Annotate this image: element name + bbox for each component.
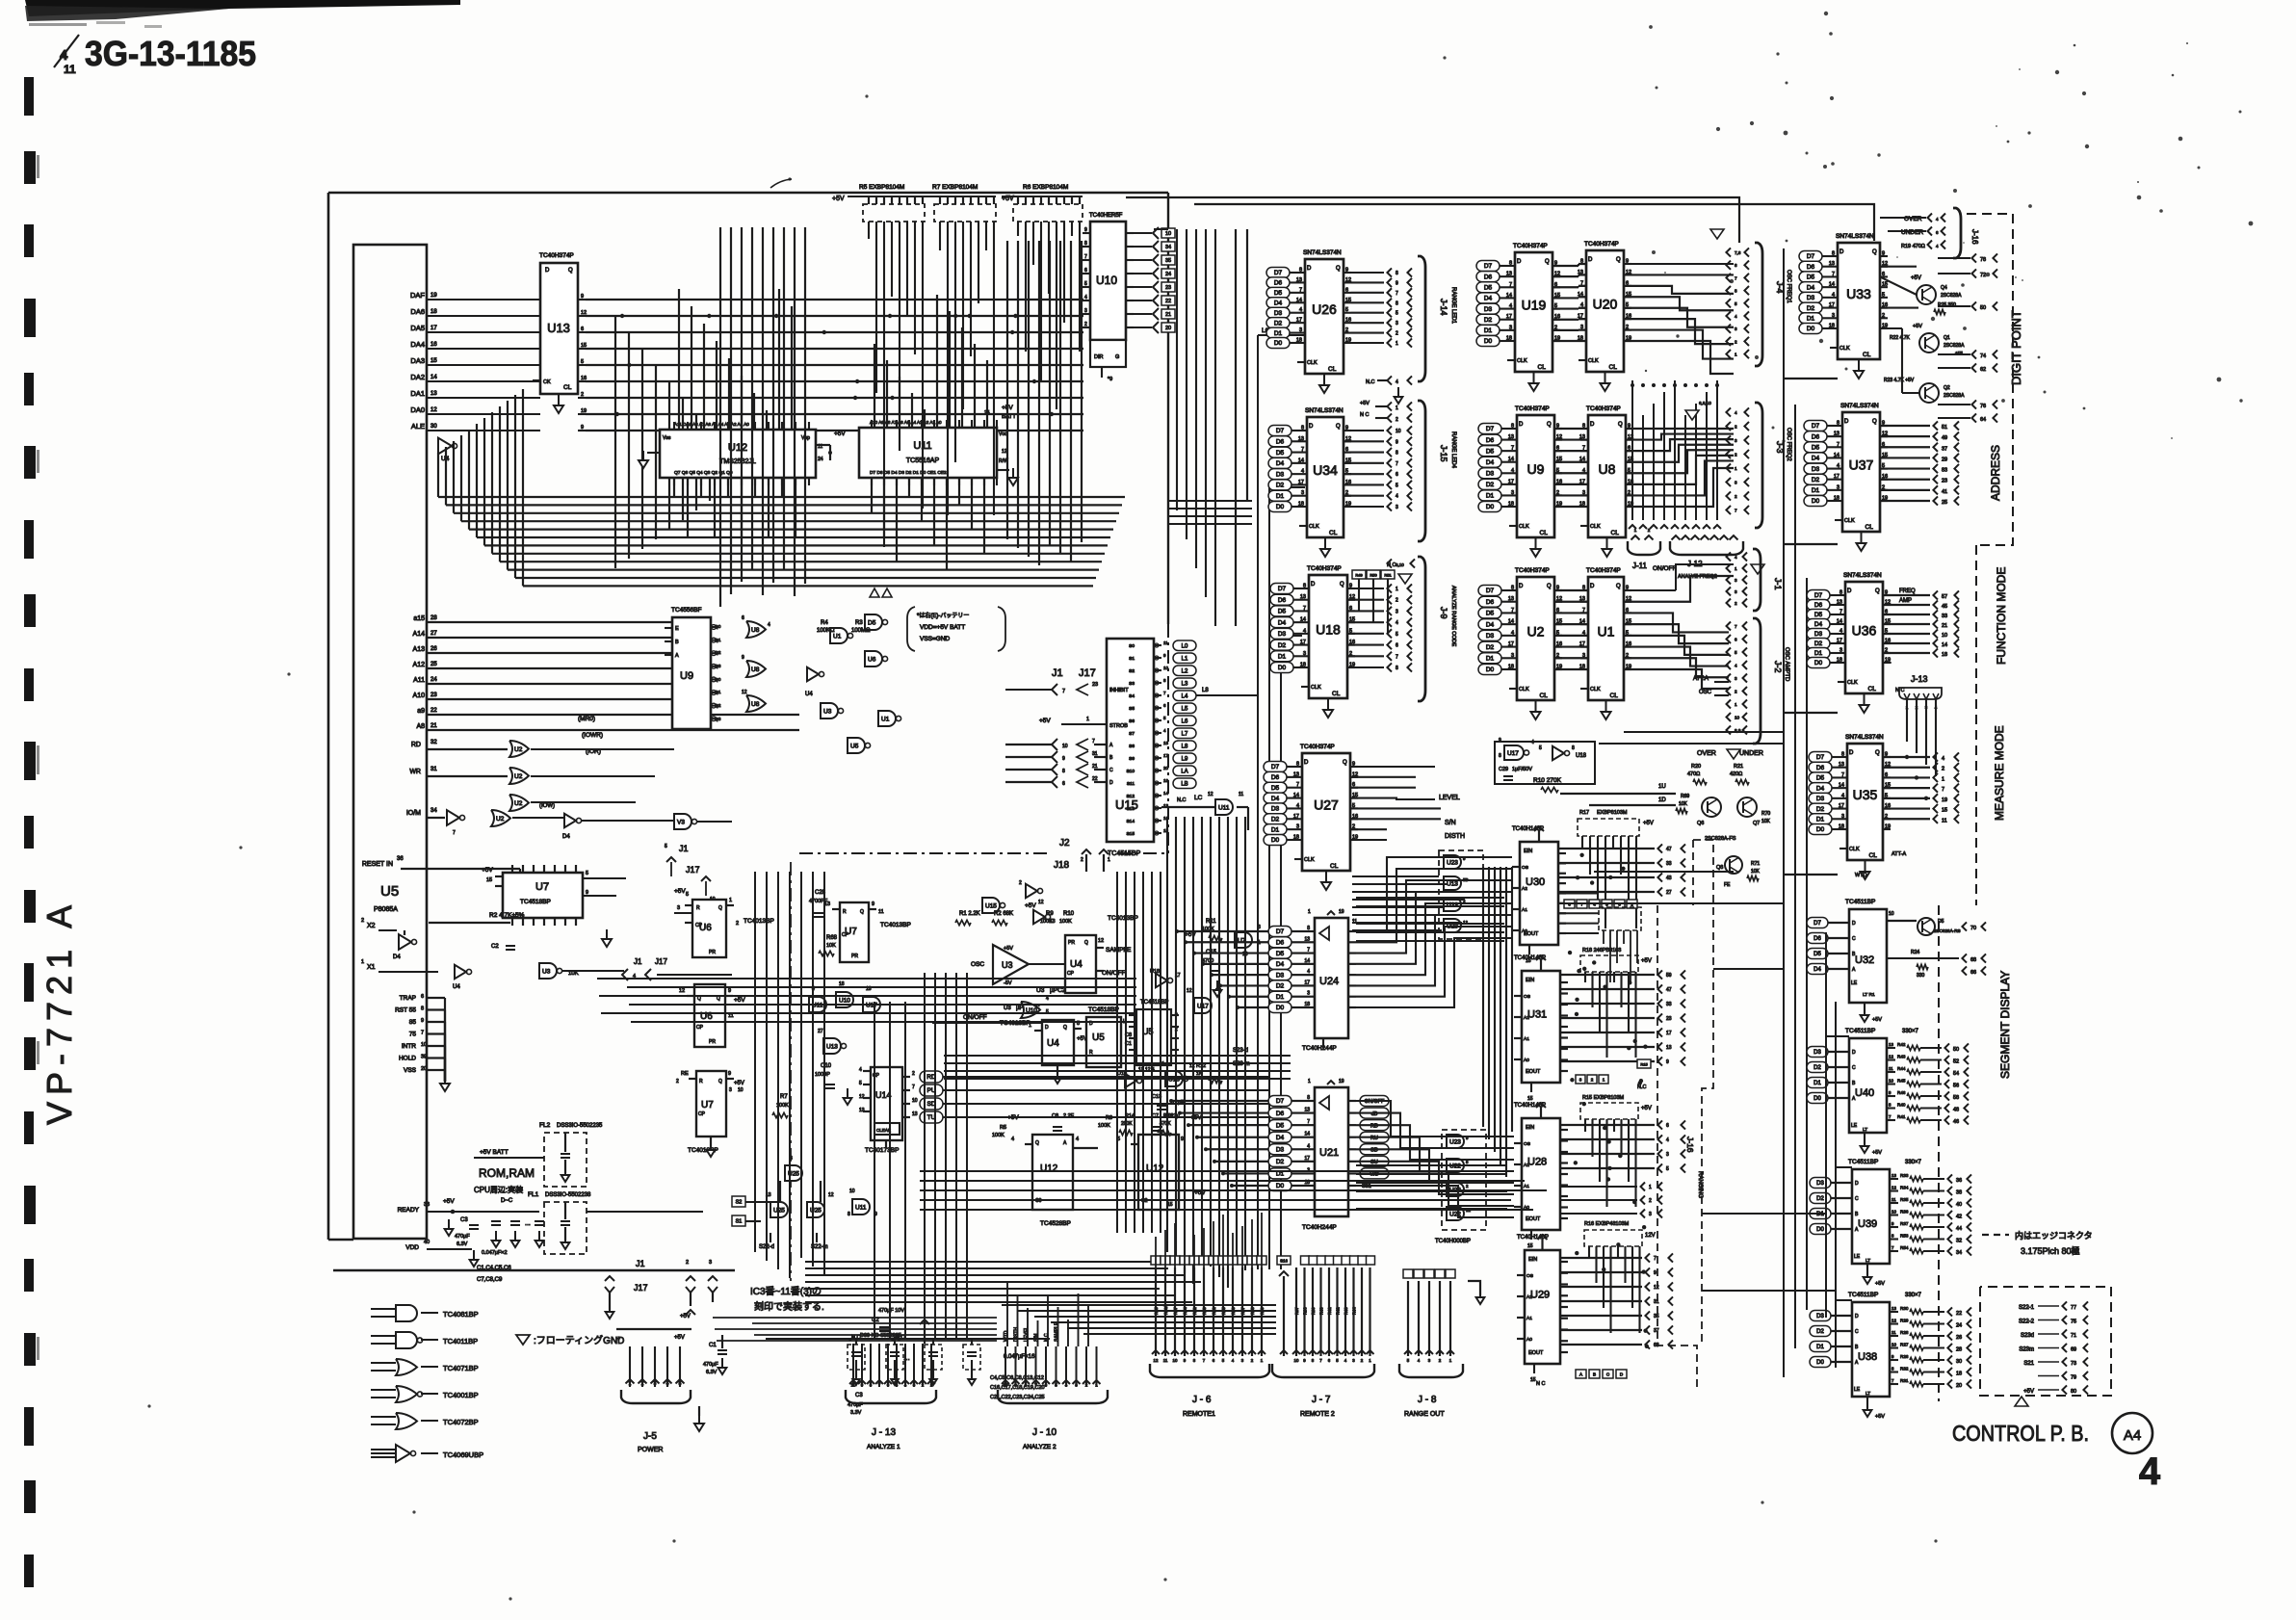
- svg-text:R9: R9: [1046, 911, 1054, 917]
- svg-text:9: 9: [1396, 439, 1398, 445]
- svg-text:TC4011BP: TC4011BP: [443, 1337, 478, 1346]
- encoder output wires with junction dots to ranging connector: [1558, 844, 1685, 1348]
- svg-text:PR: PR: [851, 954, 858, 959]
- svg-text:11: 11: [1163, 1358, 1168, 1363]
- svg-text:S22-1: S22-1: [2019, 1305, 2035, 1311]
- svg-text:A11 DA9 A8 A7 A6 A5 A4 A3 A2 A: A11 DA9 A8 A7 A6 A5 A4 A3 A2 A1 A0: [674, 422, 749, 427]
- CPU section bottom border: [333, 1269, 735, 1271]
- svg-text:D3: D3: [1486, 633, 1495, 640]
- svg-text:D2: D2: [1276, 1159, 1285, 1165]
- svg-text:4: 4: [1307, 1143, 1310, 1149]
- svg-text:2: 2: [641, 1381, 644, 1387]
- opamp U3 uPC271C: [955, 911, 1078, 994]
- svg-text:TC4511BP: TC4511BP: [1848, 1292, 1878, 1298]
- svg-text:100K: 100K: [1098, 1123, 1110, 1129]
- svg-text:D4: D4: [393, 954, 401, 960]
- svg-text:BATT: BATT: [1002, 414, 1016, 420]
- svg-text:J - 10: J - 10: [1032, 1427, 1057, 1438]
- svg-text:24: 24: [430, 677, 437, 683]
- READY and VDD rows with caps: [398, 1198, 544, 1283]
- svg-text:S23-m: S23-m: [1233, 1061, 1250, 1067]
- connectors J-11 and J-12 ANALYZ FREQ2: [1628, 528, 1764, 580]
- digit point transistors Q4 Q1 Q2: [1880, 267, 1965, 403]
- svg-text:J-16: J-16: [1970, 229, 1979, 245]
- svg-text:9: 9: [1882, 251, 1885, 257]
- svg-text:77: 77: [2071, 1305, 2076, 1311]
- svg-text:11: 11: [1942, 818, 1947, 823]
- svg-text:D1: D1: [1814, 650, 1823, 657]
- svg-text:CONTROL P. B.: CONTROL P. B.: [1952, 1421, 2089, 1446]
- svg-text:D6: D6: [1271, 774, 1280, 781]
- svg-text:1: 1: [629, 1381, 632, 1387]
- center column risers: [874, 624, 1268, 1339]
- svg-text:S5: S5: [1129, 706, 1135, 712]
- svg-text:DA0: DA0: [410, 405, 425, 414]
- svg-text:11: 11: [1892, 1197, 1896, 1202]
- svg-text:TC40H374P: TC40H374P: [1307, 565, 1342, 572]
- svg-text:3: 3: [1837, 484, 1839, 490]
- svg-text:+: +: [616, 1336, 620, 1343]
- svg-text:D5: D5: [1276, 1122, 1285, 1129]
- svg-text:2: 2: [1882, 313, 1885, 319]
- svg-text:R41: R41: [1327, 1307, 1332, 1315]
- svg-text:15: 15: [430, 358, 437, 364]
- svg-text:D7: D7: [1486, 426, 1495, 432]
- svg-text:12: 12: [1154, 1358, 1159, 1363]
- svg-text:J1: J1: [1052, 667, 1063, 679]
- svg-text:21: 21: [430, 723, 437, 729]
- svg-text:a15: a15: [413, 615, 425, 622]
- svg-text:FE: FE: [1724, 882, 1731, 888]
- svg-text:S1: S1: [1129, 656, 1135, 662]
- register U34 SN74LS374N: [1307, 417, 1344, 537]
- svg-text:D4: D4: [1276, 1135, 1285, 1141]
- svg-text:U6: U6: [868, 657, 876, 664]
- svg-text:D0: D0: [1486, 504, 1495, 510]
- svg-text:D3: D3: [1276, 972, 1285, 979]
- register U26 SN74LS374N range LED: [1305, 259, 1344, 374]
- svg-text:1: 1: [729, 898, 732, 903]
- svg-text:3: 3: [1511, 653, 1514, 659]
- svg-text:7,8: 7,8: [1735, 250, 1741, 255]
- svg-text:1: 1: [1735, 566, 1737, 571]
- svg-text:TC40H148P: TC40H148P: [1512, 826, 1544, 832]
- svg-text:8: 8: [1307, 1095, 1310, 1101]
- svg-text:DISTH: DISTH: [1014, 1327, 1020, 1342]
- svg-text:12: 12: [742, 690, 747, 695]
- svg-text:L7: L7: [1182, 731, 1188, 737]
- svg-text:L8: L8: [1202, 688, 1209, 693]
- far right CLK feeds: [1826, 932, 1852, 1368]
- svg-text:9: 9: [581, 425, 584, 431]
- svg-text:9: 9: [1062, 756, 1065, 762]
- svg-text:SN74LS374N: SN74LS374N: [1843, 572, 1882, 579]
- svg-text:10: 10: [1003, 1383, 1008, 1388]
- svg-text:32: 32: [430, 740, 437, 745]
- svg-text:20: 20: [421, 1066, 427, 1072]
- center vertical long wires: [755, 872, 1161, 1339]
- svg-text:76: 76: [1980, 404, 1986, 409]
- svg-text:40: 40: [1956, 1202, 1962, 1208]
- svg-text:EOUT: EOUT: [1526, 1216, 1541, 1222]
- svg-text:C2: C2: [491, 944, 499, 950]
- svg-text:U10: U10: [1096, 274, 1117, 287]
- svg-text:7: 7: [1299, 287, 1302, 293]
- svg-text:DA5: DA5: [410, 324, 425, 332]
- svg-text:330×7: 330×7: [1902, 1029, 1919, 1034]
- register U37 SN74LS374N address: [1842, 412, 1880, 532]
- svg-text:J-16: J-16: [1685, 1137, 1695, 1153]
- vertical drop bundle below U20 to J-11 J-12: [1629, 380, 1721, 529]
- svg-text:D2: D2: [1816, 806, 1825, 813]
- svg-text:EIN: EIN: [1526, 1125, 1534, 1131]
- svg-text:OS: OS: [1524, 1141, 1530, 1147]
- svg-text:R7 EXBP8104M: R7 EXBP8104M: [932, 184, 978, 191]
- svg-text:2SC828A: 2SC828A: [1944, 393, 1965, 399]
- svg-text::フローティングGND: :フローティングGND: [534, 1334, 624, 1346]
- svg-text:R5 EXBP8104M: R5 EXBP8104M: [859, 184, 904, 191]
- schematic outer frame left border: [327, 193, 330, 1240]
- svg-text:J - 13: J - 13: [872, 1427, 896, 1438]
- svg-text:CL: CL: [1330, 863, 1339, 870]
- svg-text:WTD: WTD: [1855, 873, 1867, 878]
- svg-text:U3: U3: [1004, 1006, 1011, 1011]
- svg-text:5: 5: [686, 892, 689, 898]
- svg-text:4: 4: [2139, 1450, 2161, 1493]
- svg-text:28: 28: [430, 615, 437, 621]
- svg-text:S3: S3: [1129, 681, 1135, 687]
- svg-text:8: 8: [1396, 666, 1398, 671]
- svg-text:4: 4: [1511, 630, 1514, 636]
- svg-text:J18: J18: [1054, 860, 1070, 871]
- svg-text:D2: D2: [1807, 305, 1815, 312]
- svg-text:Vcc: Vcc: [999, 431, 1007, 437]
- svg-text:ALE: ALE: [411, 422, 425, 431]
- flip-flop U6 TC4013BP first: [674, 888, 774, 957]
- svg-text:U4: U4: [1070, 959, 1083, 970]
- svg-text:9: 9: [1345, 268, 1348, 274]
- svg-text:Vss: Vss: [663, 435, 671, 441]
- svg-text:16: 16: [430, 342, 437, 348]
- svg-text:D7: D7: [1486, 588, 1495, 594]
- svg-text:SEGMENT DISPLAY: SEGMENT DISPLAY: [1998, 971, 2012, 1079]
- svg-text:S/N: S/N: [1034, 1333, 1040, 1342]
- svg-text:Q: Q: [1063, 1025, 1067, 1031]
- svg-text:Q: Q: [860, 909, 864, 915]
- svg-text:TC4013BP: TC4013BP: [744, 918, 774, 925]
- svg-text:TC4518BP: TC4518BP: [1088, 1006, 1119, 1013]
- svg-text:D0: D0: [1814, 660, 1823, 666]
- svg-text:D0: D0: [1274, 340, 1283, 347]
- svg-text:U29: U29: [1530, 1290, 1550, 1301]
- connector J-16 over under: [1880, 208, 1979, 258]
- sheet id circle A4: [2112, 1413, 2152, 1453]
- jumper J1 J17 mid link: [622, 957, 732, 980]
- svg-text:3: 3: [1735, 438, 1737, 443]
- svg-text:8: 8: [1839, 590, 1842, 596]
- svg-text:+5V: +5V: [1875, 1414, 1885, 1420]
- svg-text:A2: A2: [1524, 1015, 1529, 1021]
- svg-text:10K: 10K: [1679, 801, 1688, 807]
- svg-text:D2: D2: [1486, 482, 1495, 488]
- svg-text:D: D: [1588, 257, 1593, 263]
- svg-text:+5V: +5V: [2023, 1389, 2034, 1395]
- svg-text:D: D: [1109, 780, 1113, 786]
- svg-text:U22: U22: [1449, 1163, 1461, 1170]
- svg-text:8: 8: [1396, 271, 1398, 276]
- svg-text:LE: LE: [1851, 1123, 1858, 1129]
- svg-text:VSS: VSS: [404, 1067, 417, 1074]
- connector J-9 ANALYZE RANGE CODE: [1387, 557, 1456, 701]
- svg-text:R53: R53: [1900, 1234, 1909, 1239]
- svg-text:R10: R10: [1063, 911, 1075, 917]
- svg-text:D0: D0: [1276, 504, 1285, 510]
- svg-text:21: 21: [1165, 312, 1171, 318]
- svg-text:8: 8: [1572, 745, 1575, 751]
- svg-text:DA1: DA1: [410, 389, 425, 398]
- svg-text:HOLD: HOLD: [399, 1056, 416, 1062]
- svg-text:7: 7: [1735, 624, 1737, 629]
- svg-text:U21: U21: [1319, 1147, 1339, 1159]
- svg-text:D1: D1: [1484, 327, 1493, 334]
- svg-text:J - 6: J - 6: [1192, 1395, 1212, 1405]
- svg-text:S9: S9: [1129, 756, 1135, 762]
- svg-text:A0: A0: [1526, 1337, 1532, 1343]
- svg-text:50: 50: [1953, 1047, 1959, 1053]
- svg-text:+5V: +5V: [1039, 718, 1051, 724]
- svg-text:12: 12: [1038, 900, 1044, 905]
- svg-text:D: D: [1517, 259, 1522, 265]
- register U36 SN74LS374N function mode: [1845, 582, 1883, 693]
- svg-text:U26: U26: [1312, 301, 1337, 317]
- svg-text:TC4013BP: TC4013BP: [880, 922, 911, 928]
- svg-text:D4: D4: [1814, 621, 1823, 628]
- svg-text:TC40H374P: TC40H374P: [1586, 567, 1621, 574]
- svg-text:4: 4: [1084, 295, 1087, 300]
- svg-text:J2: J2: [1059, 838, 1070, 849]
- svg-text:S2: S2: [736, 1200, 743, 1206]
- svg-text:R23 4.7K +5V: R23 4.7K +5V: [1884, 378, 1915, 383]
- function mode output connectors: [1883, 567, 2008, 693]
- svg-text:3: 3: [1396, 609, 1398, 614]
- svg-text:S7: S7: [1129, 731, 1135, 737]
- svg-text:10: 10: [1889, 1079, 1893, 1084]
- svg-text:LT R1: LT R1: [1863, 992, 1875, 998]
- svg-text:41: 41: [1942, 489, 1947, 495]
- svg-text:D2: D2: [1271, 816, 1280, 823]
- svg-text:TC4556BF: TC4556BF: [671, 607, 701, 614]
- svg-text:Q8: Q8: [1716, 865, 1723, 871]
- svg-text:LE: LE: [1854, 1254, 1861, 1260]
- svg-text:5: 5: [1084, 281, 1087, 287]
- svg-text:OS: OS: [1526, 1273, 1533, 1279]
- svg-text:+5V: +5V: [834, 431, 846, 437]
- svg-text:*は右(E)-バッテリー: *は右(E)-バッテリー: [917, 612, 969, 619]
- svg-text:4: 4: [1509, 303, 1512, 309]
- svg-text:D5: D5: [1486, 448, 1495, 455]
- svg-text:D: D: [1045, 1025, 1049, 1031]
- svg-text:6: 6: [1084, 268, 1087, 274]
- svg-text:X1: X1: [367, 964, 376, 971]
- svg-text:Q: Q: [1872, 419, 1877, 425]
- svg-text:39: 39: [421, 1055, 427, 1060]
- svg-text:TC40H374P: TC40H374P: [1586, 405, 1621, 412]
- svg-text:1: 1: [1396, 341, 1398, 347]
- address decode rows a15-a8: [413, 615, 799, 730]
- svg-text:A: A: [675, 653, 679, 659]
- DIGIT POINT dashed border and label: [1967, 214, 2023, 545]
- svg-text:D7 D6 D5 D4 D3 D2 D1 D0 CE1 C: D7 D6 D5 D4 D3 D2 D1 D0 CE1 CE2: [870, 470, 947, 476]
- svg-text:80: 80: [2071, 1389, 2076, 1395]
- register U9 second bank: [1517, 415, 1554, 537]
- svg-text:S21: S21: [2023, 1361, 2034, 1367]
- svg-text:10: 10: [1062, 744, 1068, 749]
- CPU U5 P8085A bus box: [353, 245, 427, 1239]
- middle long horizontals to right column: [1560, 732, 1836, 1291]
- svg-text:3: 3: [729, 1087, 732, 1093]
- svg-text:74: 74: [1980, 353, 1986, 359]
- svg-text:VDD=+5V BATT: VDD=+5V BATT: [920, 624, 965, 631]
- svg-text:R: R: [843, 909, 847, 915]
- svg-text:10: 10: [1294, 1358, 1299, 1363]
- svg-text:2: 2: [1735, 425, 1737, 430]
- svg-text:U30: U30: [1526, 876, 1545, 888]
- svg-text:CPU周辺:実装: CPU周辺:実装: [474, 1185, 523, 1194]
- svg-text:11: 11: [1889, 1066, 1893, 1071]
- svg-text:1: 1: [1735, 353, 1737, 357]
- svg-text:24: 24: [1956, 1323, 1962, 1329]
- svg-text:TC4528BP: TC4528BP: [1040, 1220, 1071, 1227]
- svg-text:6: 6: [1396, 643, 1398, 649]
- svg-text:CK: CK: [543, 379, 551, 385]
- svg-text:12: 12: [679, 988, 685, 994]
- svg-text:15: 15: [1942, 808, 1947, 814]
- svg-text:U25: U25: [810, 1208, 822, 1215]
- svg-text:1: 1: [361, 959, 364, 965]
- svg-text:Q: Q: [1547, 422, 1552, 428]
- floating ground note: [516, 1334, 624, 1346]
- svg-text:33: 33: [1666, 861, 1672, 867]
- svg-text:Q: Q: [1343, 760, 1347, 766]
- svg-text:20: 20: [1956, 1383, 1962, 1389]
- svg-text:44: 44: [1956, 1226, 1962, 1232]
- svg-text:2: 2: [1735, 690, 1737, 694]
- svg-text:7: 7: [1654, 1256, 1657, 1262]
- svg-text:D2: D2: [1486, 644, 1495, 651]
- connector J-14 RANGE LED1: [1366, 256, 1456, 404]
- svg-text:D4: D4: [1276, 961, 1285, 968]
- svg-text:R27: R27: [1900, 1343, 1909, 1347]
- svg-text:D5: D5: [1278, 609, 1287, 615]
- svg-text:CLK: CLK: [1309, 524, 1319, 530]
- svg-text:D1: D1: [1274, 330, 1283, 337]
- svg-text:U25: U25: [773, 1208, 785, 1215]
- svg-text:J17: J17: [634, 1283, 648, 1293]
- svg-text:+5V: +5V: [1872, 1150, 1882, 1156]
- svg-text:ANALYZE 1: ANALYZE 1: [867, 1444, 900, 1450]
- svg-text:CL: CL: [1863, 352, 1871, 358]
- svg-text:50: 50: [1980, 305, 1986, 311]
- svg-text:78: 78: [1980, 257, 1986, 263]
- svg-text:...: ...: [525, 1220, 531, 1227]
- svg-text:TC4511BP: TC4511BP: [1845, 1028, 1875, 1034]
- svg-text:R10 270K: R10 270K: [1533, 777, 1562, 784]
- svg-text:D0: D0: [1486, 666, 1495, 673]
- svg-text:J1: J1: [679, 844, 689, 853]
- svg-text:29: 29: [1942, 457, 1947, 462]
- svg-text:59: 59: [1666, 973, 1672, 979]
- svg-text:DSS3IO-5502238: DSS3IO-5502238: [545, 1192, 591, 1198]
- svg-text:26: 26: [1956, 1335, 1962, 1341]
- svg-text:5: 5: [679, 1381, 682, 1387]
- resistor pack R18: [1580, 948, 1652, 1058]
- svg-text:3: 3: [709, 1260, 712, 1266]
- svg-text:D: D: [1590, 422, 1595, 428]
- svg-text:12: 12: [1654, 1285, 1659, 1291]
- svg-text:2: 2: [1396, 598, 1398, 604]
- svg-text:S16: S16: [1280, 1259, 1288, 1264]
- connector J-15 RANGE LED4: [1360, 401, 1456, 541]
- svg-text:CL: CL: [1328, 366, 1337, 373]
- resistor pack R16: [1584, 1221, 1656, 1333]
- svg-text:RANGING: RANGING: [1697, 1171, 1703, 1198]
- svg-text:5: 5: [1539, 745, 1542, 751]
- svg-text:9,10: 9,10: [1396, 562, 1404, 567]
- pull-up pills above U18 outputs: [1352, 562, 1412, 634]
- svg-text:4: 4: [1735, 555, 1737, 560]
- svg-text:OSC FREQ2: OSC FREQ2: [1786, 428, 1791, 461]
- svg-text:TC4518BP: TC4518BP: [1140, 1000, 1168, 1006]
- svg-text:LC: LC: [1194, 795, 1203, 801]
- register U35 SN74LS374N measure mode: [1847, 744, 1883, 860]
- svg-text:D5: D5: [1276, 450, 1285, 457]
- svg-text:CL: CL: [1540, 530, 1549, 536]
- svg-text:1: 1: [1308, 909, 1311, 915]
- svg-text:DISTH: DISTH: [1445, 833, 1465, 840]
- svg-text:7: 7: [1396, 654, 1398, 660]
- svg-text:7: 7: [1839, 610, 1842, 615]
- svg-text:D6: D6: [1484, 274, 1493, 280]
- svg-text:DA6: DA6: [410, 307, 425, 316]
- svg-text:10K: 10K: [1751, 869, 1761, 875]
- ROM U12 TMS2532JL: [639, 422, 846, 485]
- svg-text:N C: N C: [1360, 412, 1370, 418]
- svg-text:N.C: N.C: [1044, 1333, 1050, 1342]
- svg-text:8: 8: [1841, 752, 1844, 758]
- svg-text:TC4001BP: TC4001BP: [443, 1391, 479, 1399]
- svg-text:CLK: CLK: [1849, 847, 1860, 852]
- svg-text:D: D: [1519, 584, 1524, 589]
- svg-text:N C: N C: [1536, 1381, 1546, 1387]
- svg-text:PR: PR: [709, 950, 716, 955]
- power caps C1 C2 row: [703, 1308, 1050, 1416]
- svg-text:U23: U23: [1447, 860, 1458, 867]
- svg-text:TC40H244P: TC40H244P: [1302, 1045, 1337, 1052]
- svg-text:D0: D0: [1271, 837, 1280, 844]
- svg-text:+5V: +5V: [1025, 902, 1036, 909]
- svg-text:R19 470Ω: R19 470Ω: [1901, 244, 1925, 249]
- svg-text:18: 18: [430, 309, 437, 315]
- svg-text:R5: R5: [1000, 1125, 1006, 1131]
- svg-text:OSC: OSC: [1699, 690, 1712, 695]
- svg-text:SN74LS374N: SN74LS374N: [1840, 403, 1879, 409]
- svg-text:5: 5: [1396, 483, 1398, 488]
- svg-text:8: 8: [1062, 769, 1065, 774]
- connector J-8 RANGE OUT: [1399, 1269, 1484, 1418]
- register U18 TC40H374P analyze range code: [1309, 575, 1347, 698]
- svg-text:D2: D2: [1484, 317, 1493, 324]
- svg-text:4: 4: [1832, 292, 1835, 298]
